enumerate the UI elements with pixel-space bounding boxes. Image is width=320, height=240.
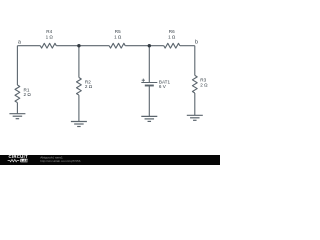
logo resistor squiggle	[8, 159, 20, 161]
resistor R3	[192, 75, 197, 93]
wire: R4 to R5	[56, 45, 109, 47]
svg-text:2 Ω: 2 Ω	[24, 92, 32, 97]
svg-text:R4: R4	[46, 29, 52, 34]
ground (under R3)	[187, 115, 203, 120]
svg-text:b: b	[195, 39, 198, 45]
resistor R1	[15, 85, 20, 103]
svg-text:a: a	[18, 40, 21, 46]
resistor R5	[109, 43, 125, 48]
svg-text:LAB: LAB	[21, 159, 29, 163]
svg-text:http://circuitlab.com/c/q7h556: http://circuitlab.com/c/q7h556	[40, 159, 81, 163]
svg-text:1 Ω: 1 Ω	[46, 34, 54, 39]
svg-text:1 Ω: 1 Ω	[114, 34, 122, 39]
resistor R4	[40, 43, 56, 48]
footer bar	[0, 155, 220, 165]
svg-text:6 V: 6 V	[159, 84, 167, 89]
wire: R1 to ground	[16, 103, 18, 114]
ground (under R2)	[71, 122, 87, 127]
svg-text:2 Ω: 2 Ω	[85, 84, 93, 89]
svg-text:R6: R6	[169, 29, 175, 34]
wire: node a down to R1	[16, 46, 18, 85]
wire: BAT1 to ground	[148, 86, 150, 117]
ground (under BAT1)	[141, 116, 157, 121]
wire top: node a to R4	[17, 45, 40, 47]
wire: R2 to ground	[78, 95, 80, 121]
junction node (R2 tap)	[77, 44, 80, 47]
wire: junction2 down to BAT1	[148, 46, 150, 83]
svg-text:1 Ω: 1 Ω	[168, 34, 176, 39]
wire: node b down to R3	[194, 46, 196, 76]
ground (under R1)	[9, 114, 25, 119]
logo LAB box	[20, 159, 27, 163]
wire: R6 to node b	[180, 45, 195, 47]
resistor R2	[77, 78, 82, 96]
resistor R6	[164, 43, 180, 48]
svg-text:2 Ω: 2 Ω	[200, 82, 208, 87]
junction node (BAT1 tap)	[148, 44, 151, 47]
wire: R5 to R6	[125, 45, 164, 47]
wire: R3 to ground	[194, 93, 196, 115]
battery BAT1	[141, 82, 157, 84]
svg-text:R5: R5	[115, 29, 121, 34]
battery plus sign	[142, 79, 145, 82]
wire: junction1 down to R2	[78, 46, 80, 78]
